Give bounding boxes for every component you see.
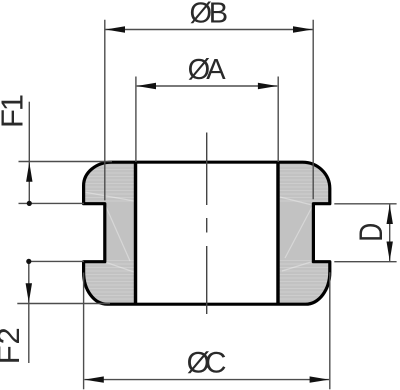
ØB left arrow bbox=[106, 26, 125, 32]
body outline (thick) bbox=[84, 162, 330, 304]
F1 dimension line bbox=[28, 102, 30, 204]
dimension F2 bbox=[17, 261, 110, 363]
F1 arrow (up) bbox=[26, 162, 32, 181]
ØA left extension line bbox=[135, 77, 137, 163]
ØC dimension line bbox=[84, 379, 329, 381]
F2 top extension line bbox=[29, 260, 84, 262]
hole left edge bbox=[134, 162, 137, 304]
rubber texture streaks bbox=[84, 164, 329, 303]
svg-text:ØB: ØB bbox=[190, 0, 229, 30]
D bottom extension line bbox=[334, 261, 396, 263]
dimension F1 bbox=[19, 102, 113, 204]
F2 dot bbox=[26, 259, 31, 264]
ØC left extension line bbox=[83, 273, 85, 390]
svg-text:F2: F2 bbox=[0, 327, 26, 364]
ØA dimension line bbox=[137, 85, 278, 87]
ØB dimension line bbox=[106, 29, 313, 31]
D top arrow bbox=[387, 205, 393, 224]
F2 arrow (down) bbox=[26, 283, 32, 302]
F1 bottom extension line bbox=[19, 202, 85, 204]
ØB left extension line bbox=[104, 20, 106, 201]
ØB right arrow bbox=[293, 26, 312, 32]
svg-text:F1: F1 bbox=[0, 94, 29, 128]
F1 dot bbox=[27, 201, 32, 206]
hole (bore) white bbox=[137, 164, 276, 303]
D bottom arrow bbox=[387, 242, 393, 261]
dimension ØA bbox=[136, 77, 278, 163]
svg-text:ØA: ØA bbox=[188, 54, 227, 86]
dimension D bbox=[334, 204, 396, 262]
grommet body cross-section (outer profile, gray material fill) bbox=[84, 162, 330, 304]
centerline (dash-dot) bbox=[206, 133, 208, 315]
svg-text:D: D bbox=[353, 223, 389, 242]
F1 top extension line bbox=[19, 161, 113, 163]
F2 dimension line bbox=[28, 261, 30, 363]
ØA right extension line bbox=[277, 77, 279, 163]
dimension ØB bbox=[105, 20, 313, 201]
svg-text:ØC: ØC bbox=[187, 347, 227, 380]
hole right edge bbox=[276, 162, 279, 304]
dimension ØC bbox=[84, 272, 330, 389]
ØA right arrow bbox=[258, 83, 277, 89]
ØB right extension line bbox=[312, 20, 314, 200]
D dimension line bbox=[389, 205, 391, 262]
ØC right extension line bbox=[329, 272, 331, 389]
ØC right arrow bbox=[310, 376, 329, 382]
ØC left arrow bbox=[84, 376, 103, 382]
F2 bottom extension line bbox=[17, 303, 110, 305]
ØA left arrow bbox=[137, 83, 156, 89]
D top extension line bbox=[334, 203, 396, 205]
